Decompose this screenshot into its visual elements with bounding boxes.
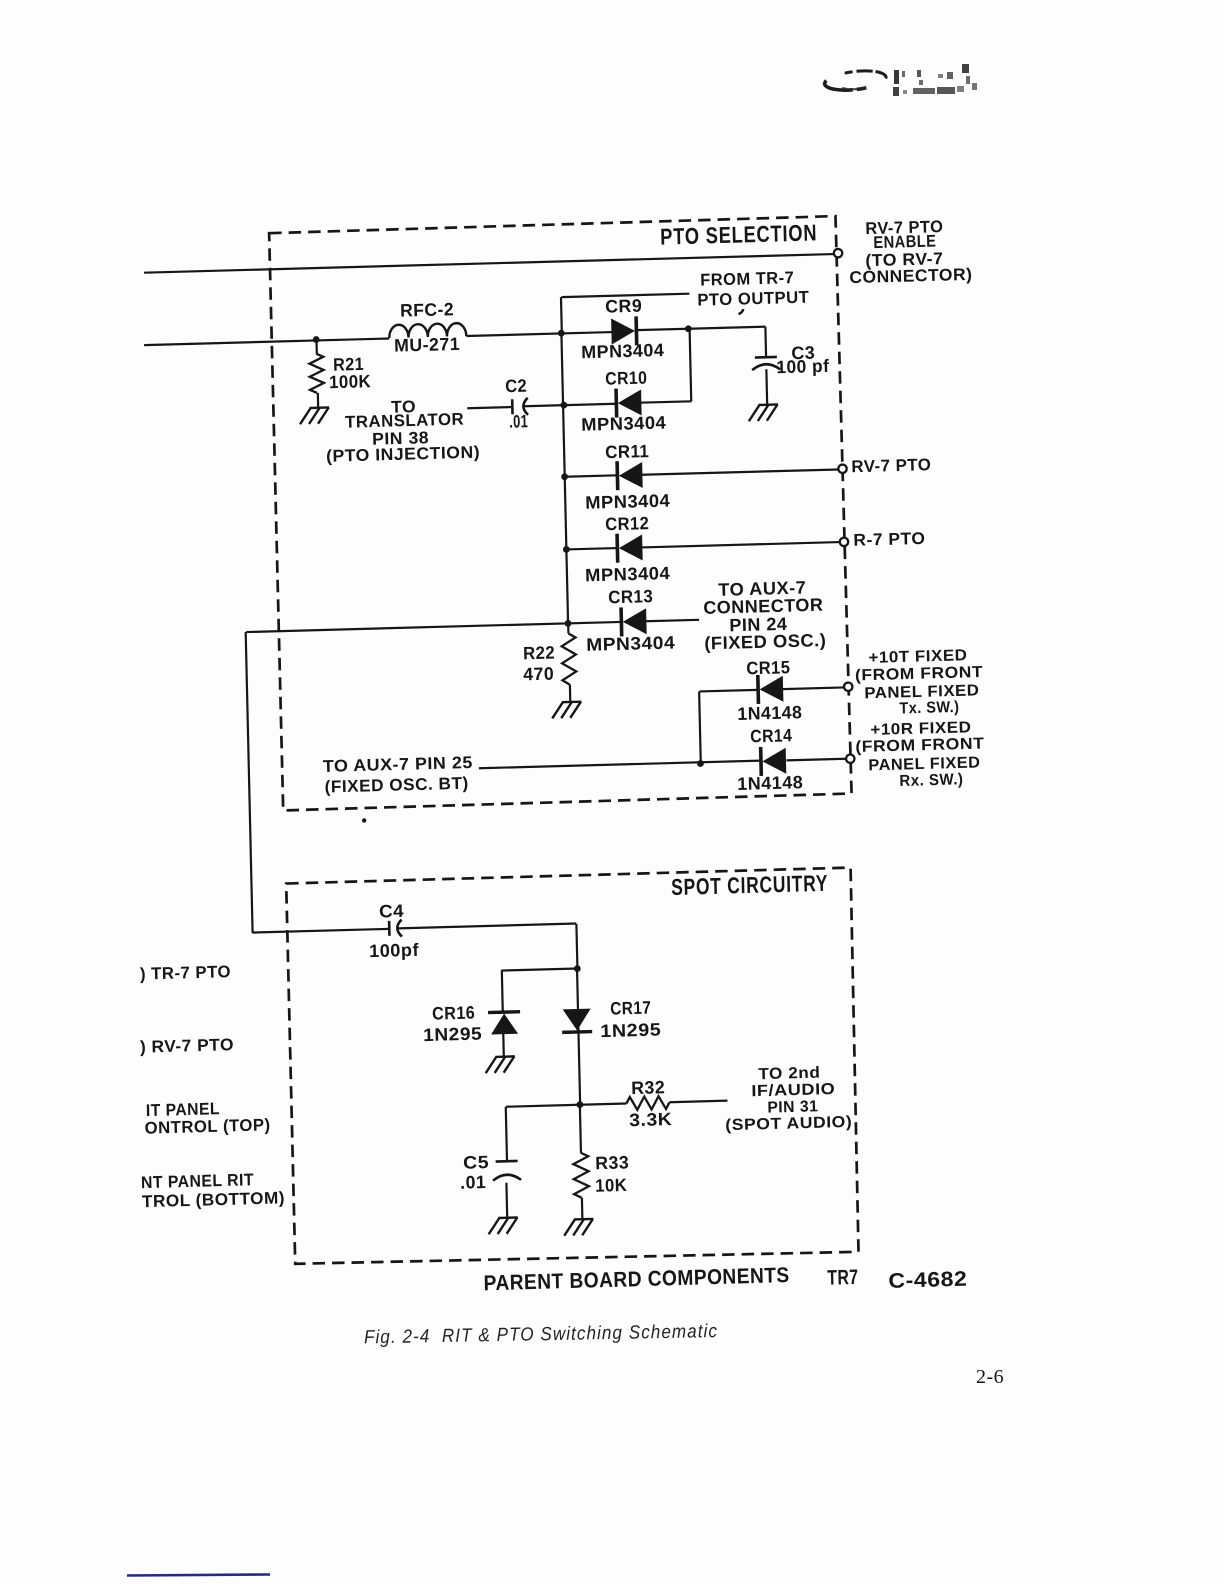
diode CR15 (1N4148) — [758, 674, 784, 704]
svg-text:(FROM FRONT: (FROM FRONT — [855, 736, 984, 756]
wire bus to CR12 — [566, 548, 617, 549]
svg-text:1N295: 1N295 — [423, 1024, 482, 1046]
svg-text:1N295: 1N295 — [600, 1020, 661, 1042]
svg-text:MPN3404: MPN3404 — [581, 340, 664, 362]
svg-text:CR15: CR15 — [746, 657, 790, 678]
svg-text:CR10: CR10 — [605, 368, 647, 389]
svg-text:R-7 PTO: R-7 PTO — [853, 529, 925, 550]
ground under R22 — [552, 702, 582, 719]
svg-text:CR9: CR9 — [605, 296, 642, 317]
stray comma mark under PTO OUTPUT — [738, 309, 743, 314]
wire node A up — [560, 297, 563, 333]
svg-text:TR7: TR7 — [827, 1266, 859, 1290]
svg-text:.01: .01 — [460, 1172, 486, 1193]
wire vertical bus — [561, 333, 568, 623]
svg-text:Tx. SW.): Tx. SW.) — [899, 699, 959, 718]
Drake company logo (faded scan) — [824, 68, 887, 92]
diode CR10 (MPN3404) — [616, 388, 642, 418]
junction CR13/R22 node — [565, 620, 572, 627]
svg-text:MPN3404: MPN3404 — [585, 491, 670, 513]
svg-text:IF/AUDIO: IF/AUDIO — [751, 1081, 835, 1100]
svg-text:(FIXED OSC.): (FIXED OSC.) — [704, 630, 826, 653]
svg-text:470: 470 — [523, 664, 554, 685]
diode CR16 (1N295) — [488, 1012, 521, 1035]
wire C3 top lead — [764, 327, 767, 358]
svg-text:MPN3404: MPN3404 — [586, 632, 675, 654]
figure caption — [364, 1321, 718, 1348]
wire R33 top lead — [580, 1105, 581, 1153]
wire R21 top lead — [315, 341, 317, 354]
wire CR13 right stub — [645, 620, 699, 621]
wire R22 bottom lead — [569, 684, 572, 701]
wire C4 left segment — [252, 929, 389, 933]
svg-text:(SPOT AUDIO): (SPOT AUDIO) — [725, 1114, 852, 1134]
wire long riser from CR13 row down to C4 row — [246, 632, 253, 933]
terminal +10T FIXED — [844, 682, 853, 691]
svg-text:.01: .01 — [509, 411, 528, 432]
wire CR10 to node B riser — [639, 401, 691, 402]
svg-text:2-6: 2-6 — [976, 1366, 1004, 1388]
svg-text:(FIXED OSC. BT): (FIXED OSC. BT) — [324, 774, 468, 797]
wire R33 bottom lead — [581, 1198, 584, 1219]
svg-text:ONTROL (TOP): ONTROL (TOP) — [144, 1115, 270, 1137]
wire junction B down to CR10 — [690, 329, 692, 402]
svg-text:PARENT BOARD COMPONENTS: PARENT BOARD COMPONENTS — [483, 1263, 790, 1295]
junction C2 node on bus — [560, 402, 567, 409]
svg-text:TO 2nd: TO 2nd — [758, 1065, 820, 1084]
svg-text:100pf: 100pf — [369, 940, 420, 961]
junction node B — [685, 325, 692, 332]
svg-text:R32: R32 — [631, 1077, 665, 1098]
wire to R32 — [580, 1103, 627, 1104]
wire CR9 cathode to junction B — [636, 329, 688, 330]
resistor R32 — [626, 1096, 669, 1110]
svg-text:RV-7 PTO: RV-7 PTO — [851, 455, 931, 476]
wire branch to CR16 — [501, 969, 577, 971]
svg-text:CR17: CR17 — [610, 998, 651, 1019]
wire CR14 to +10R terminal — [786, 759, 845, 761]
wire C5 top lead — [506, 1107, 507, 1162]
junction spot audio node — [576, 1101, 583, 1108]
junction node A — [558, 330, 565, 337]
svg-text:CR16: CR16 — [432, 1003, 475, 1024]
wire CR16 bottom lead — [502, 1034, 505, 1057]
wire down to CR16/CR17 node — [576, 924, 577, 969]
terminal R-7 PTO — [840, 538, 849, 547]
wire CR11 to RV-7 PTO terminal — [642, 469, 838, 474]
svg-text:CR11: CR11 — [605, 441, 649, 462]
wire C5 bottom lead — [505, 1183, 508, 1218]
svg-text:CR13: CR13 — [608, 586, 653, 607]
ground under R33 — [564, 1219, 594, 1236]
resistor R22 — [561, 633, 576, 684]
svg-text:SPOT CIRCUITRY: SPOT CIRCUITRY — [671, 870, 829, 900]
ground under R21 — [300, 407, 330, 424]
diode CR11 (MPN3404) — [617, 461, 643, 491]
diode CR9 (MPN3404) — [611, 316, 637, 346]
wire branch to C5 — [506, 1105, 580, 1107]
wire CR17 vertical — [577, 969, 580, 1105]
wire to FROM TR-7 PTO OUTPUT — [561, 294, 689, 297]
wire C4 right segment — [398, 924, 577, 929]
ground under C3 — [748, 404, 778, 421]
svg-text:Fig. 2-4 RIT & PTO Switching: Fig. 2-4 RIT & PTO Switching Schematic — [364, 1321, 718, 1348]
svg-text:R33: R33 — [595, 1152, 629, 1173]
diode CR14 (1N4148) — [761, 746, 787, 776]
wire R21 bottom lead — [317, 393, 320, 407]
inductor RFC-2 MU-271 — [389, 323, 466, 338]
junction CR16/CR17 node — [574, 965, 581, 972]
svg-text:TO AUX-7 PIN 25: TO AUX-7 PIN 25 — [323, 753, 473, 776]
svg-text:(FROM FRONT: (FROM FRONT — [855, 664, 983, 684]
capacitor C4 100pf — [389, 920, 402, 937]
svg-text:MU-271: MU-271 — [394, 334, 460, 356]
wire C3 bottom lead — [765, 369, 768, 404]
junction CR11 node — [561, 473, 568, 480]
stray dot speck — [362, 818, 367, 823]
junction CR14/CR15 node — [697, 760, 704, 767]
capacitor C5 .01 — [493, 1161, 521, 1181]
svg-text:TROL (BOTTOM): TROL (BOTTOM) — [142, 1188, 285, 1211]
svg-text:3.3K: 3.3K — [629, 1109, 672, 1130]
svg-text:100 pf: 100 pf — [776, 356, 830, 377]
wire C2 to CR10 — [524, 404, 617, 406]
svg-text:C5: C5 — [463, 1152, 489, 1173]
junction CR12 node — [563, 546, 570, 553]
wire W1 to RV-7 PTO ENABLE — [144, 254, 834, 273]
svg-text:MPN3404: MPN3404 — [581, 412, 666, 434]
svg-text:) RV-7 PTO: ) RV-7 PTO — [140, 1035, 234, 1057]
diode CR17 (1N295) — [562, 1009, 593, 1033]
wire node B to C3 — [688, 327, 765, 329]
svg-text:R22: R22 — [523, 643, 555, 664]
svg-text:1N4148: 1N4148 — [737, 772, 803, 794]
svg-text:MPN3404: MPN3404 — [585, 563, 670, 585]
SPOT CIRCUITRY dashed enclosure — [286, 868, 859, 1267]
svg-text:CONNECTOR): CONNECTOR) — [849, 265, 972, 287]
svg-text:C4: C4 — [379, 901, 404, 922]
wire to C2 left plate — [467, 407, 512, 408]
wire TO AUX-7 PIN 25 to CR14 — [479, 761, 761, 769]
diode CR12 (MPN3404) — [617, 533, 643, 563]
wire W2 main PTO feed — [144, 339, 389, 346]
svg-text:100K: 100K — [329, 371, 371, 392]
wire W2 right of RFC-2 — [466, 332, 612, 336]
capacitor C2 .01 — [512, 398, 528, 415]
capacitor C3 100pf — [752, 357, 780, 370]
ground under C5 — [488, 1217, 518, 1234]
resistor R21 — [309, 353, 324, 393]
blue underline mark bottom left — [127, 1575, 270, 1576]
svg-text:PTO SELECTION: PTO SELECTION — [660, 219, 818, 249]
wire R32 to spot audio label — [669, 1101, 727, 1103]
svg-text:C-4682: C-4682 — [888, 1268, 968, 1293]
svg-text:CR14: CR14 — [750, 725, 792, 746]
svg-text:RFC-2: RFC-2 — [400, 299, 454, 320]
PTO SELECTION dashed enclosure — [269, 216, 852, 810]
svg-text:PTO OUTPUT: PTO OUTPUT — [697, 288, 810, 310]
svg-text:10K: 10K — [595, 1175, 627, 1196]
svg-text:) TR-7 PTO: ) TR-7 PTO — [140, 962, 231, 983]
ground under CR16 — [485, 1056, 515, 1073]
svg-text:CR12: CR12 — [605, 513, 649, 534]
wire R22 top lead — [567, 623, 569, 633]
svg-text:(PTO INJECTION): (PTO INJECTION) — [326, 443, 480, 466]
resistor R33 — [573, 1153, 589, 1198]
terminal RV-7 PTO — [838, 464, 847, 473]
wire CR13 long left segment — [246, 622, 621, 632]
diode CR13 (MPN3404) — [621, 607, 647, 637]
svg-text:1N4148: 1N4148 — [737, 702, 802, 724]
wire bus to CR11 — [565, 475, 618, 476]
wire riser to CR15 — [699, 690, 758, 692]
terminal +10R FIXED — [846, 754, 855, 763]
svg-text:C2: C2 — [505, 376, 527, 397]
wire CR15-CR14 riser — [699, 691, 701, 763]
terminal RV-7 PTO ENABLE — [834, 249, 843, 258]
svg-text:FROM TR-7: FROM TR-7 — [700, 268, 794, 290]
wire CR12 to R-7 PTO terminal — [641, 542, 839, 547]
wire CR16 top lead — [501, 970, 504, 1012]
wire CR15 to +10T terminal — [783, 687, 845, 689]
junction R21 node — [313, 336, 320, 343]
svg-text:Rx. SW.): Rx. SW.) — [899, 771, 963, 790]
